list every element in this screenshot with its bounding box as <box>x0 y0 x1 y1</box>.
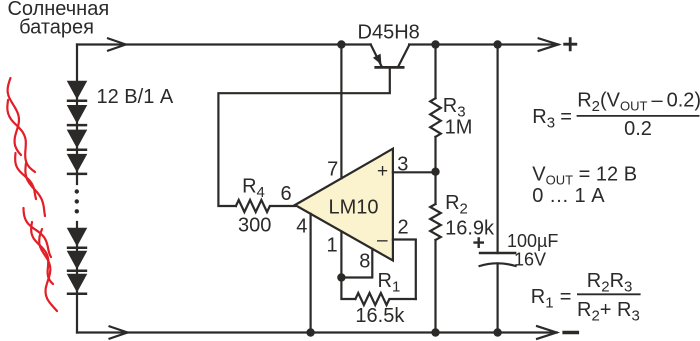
svg-text:1: 1 <box>327 234 338 256</box>
svg-text:батарея: батарея <box>19 17 94 39</box>
svg-text:0 … 1 А: 0 … 1 А <box>532 185 605 207</box>
svg-text:R1: R1 <box>531 286 554 312</box>
svg-text:1M: 1M <box>445 116 473 138</box>
svg-text:=: = <box>560 286 572 308</box>
svg-text:R2: R2 <box>445 192 468 218</box>
svg-text:=: = <box>560 106 572 128</box>
svg-text:R2(VOUT – 0.2): R2(VOUT – 0.2) <box>577 90 700 116</box>
svg-text:12 В/1 А: 12 В/1 А <box>97 86 174 108</box>
svg-text:8: 8 <box>359 251 370 273</box>
svg-text:R1: R1 <box>378 270 401 296</box>
svg-text:–: – <box>377 230 388 251</box>
svg-text:16V: 16V <box>514 250 546 270</box>
svg-text:2: 2 <box>398 217 409 239</box>
svg-text:300: 300 <box>238 215 271 237</box>
svg-text:7: 7 <box>327 158 338 180</box>
svg-text:4: 4 <box>296 216 307 238</box>
svg-text:100µF: 100µF <box>507 231 558 251</box>
svg-text:D45H8: D45H8 <box>358 22 420 44</box>
svg-text:16.5k: 16.5k <box>355 305 405 327</box>
svg-text:R2+ R3: R2+ R3 <box>577 299 640 325</box>
svg-text:VOUT = 12 В: VOUT = 12 В <box>532 163 637 187</box>
svg-text:R2R3: R2R3 <box>587 270 633 296</box>
svg-text:16.9k: 16.9k <box>445 218 495 240</box>
svg-text:6: 6 <box>280 183 291 205</box>
svg-text:3: 3 <box>397 154 408 176</box>
svg-text:R4: R4 <box>242 176 265 202</box>
svg-text:LM10: LM10 <box>329 197 379 219</box>
svg-text:0.2: 0.2 <box>624 118 652 140</box>
svg-text:R3: R3 <box>532 106 555 131</box>
svg-text:+: + <box>377 161 388 182</box>
